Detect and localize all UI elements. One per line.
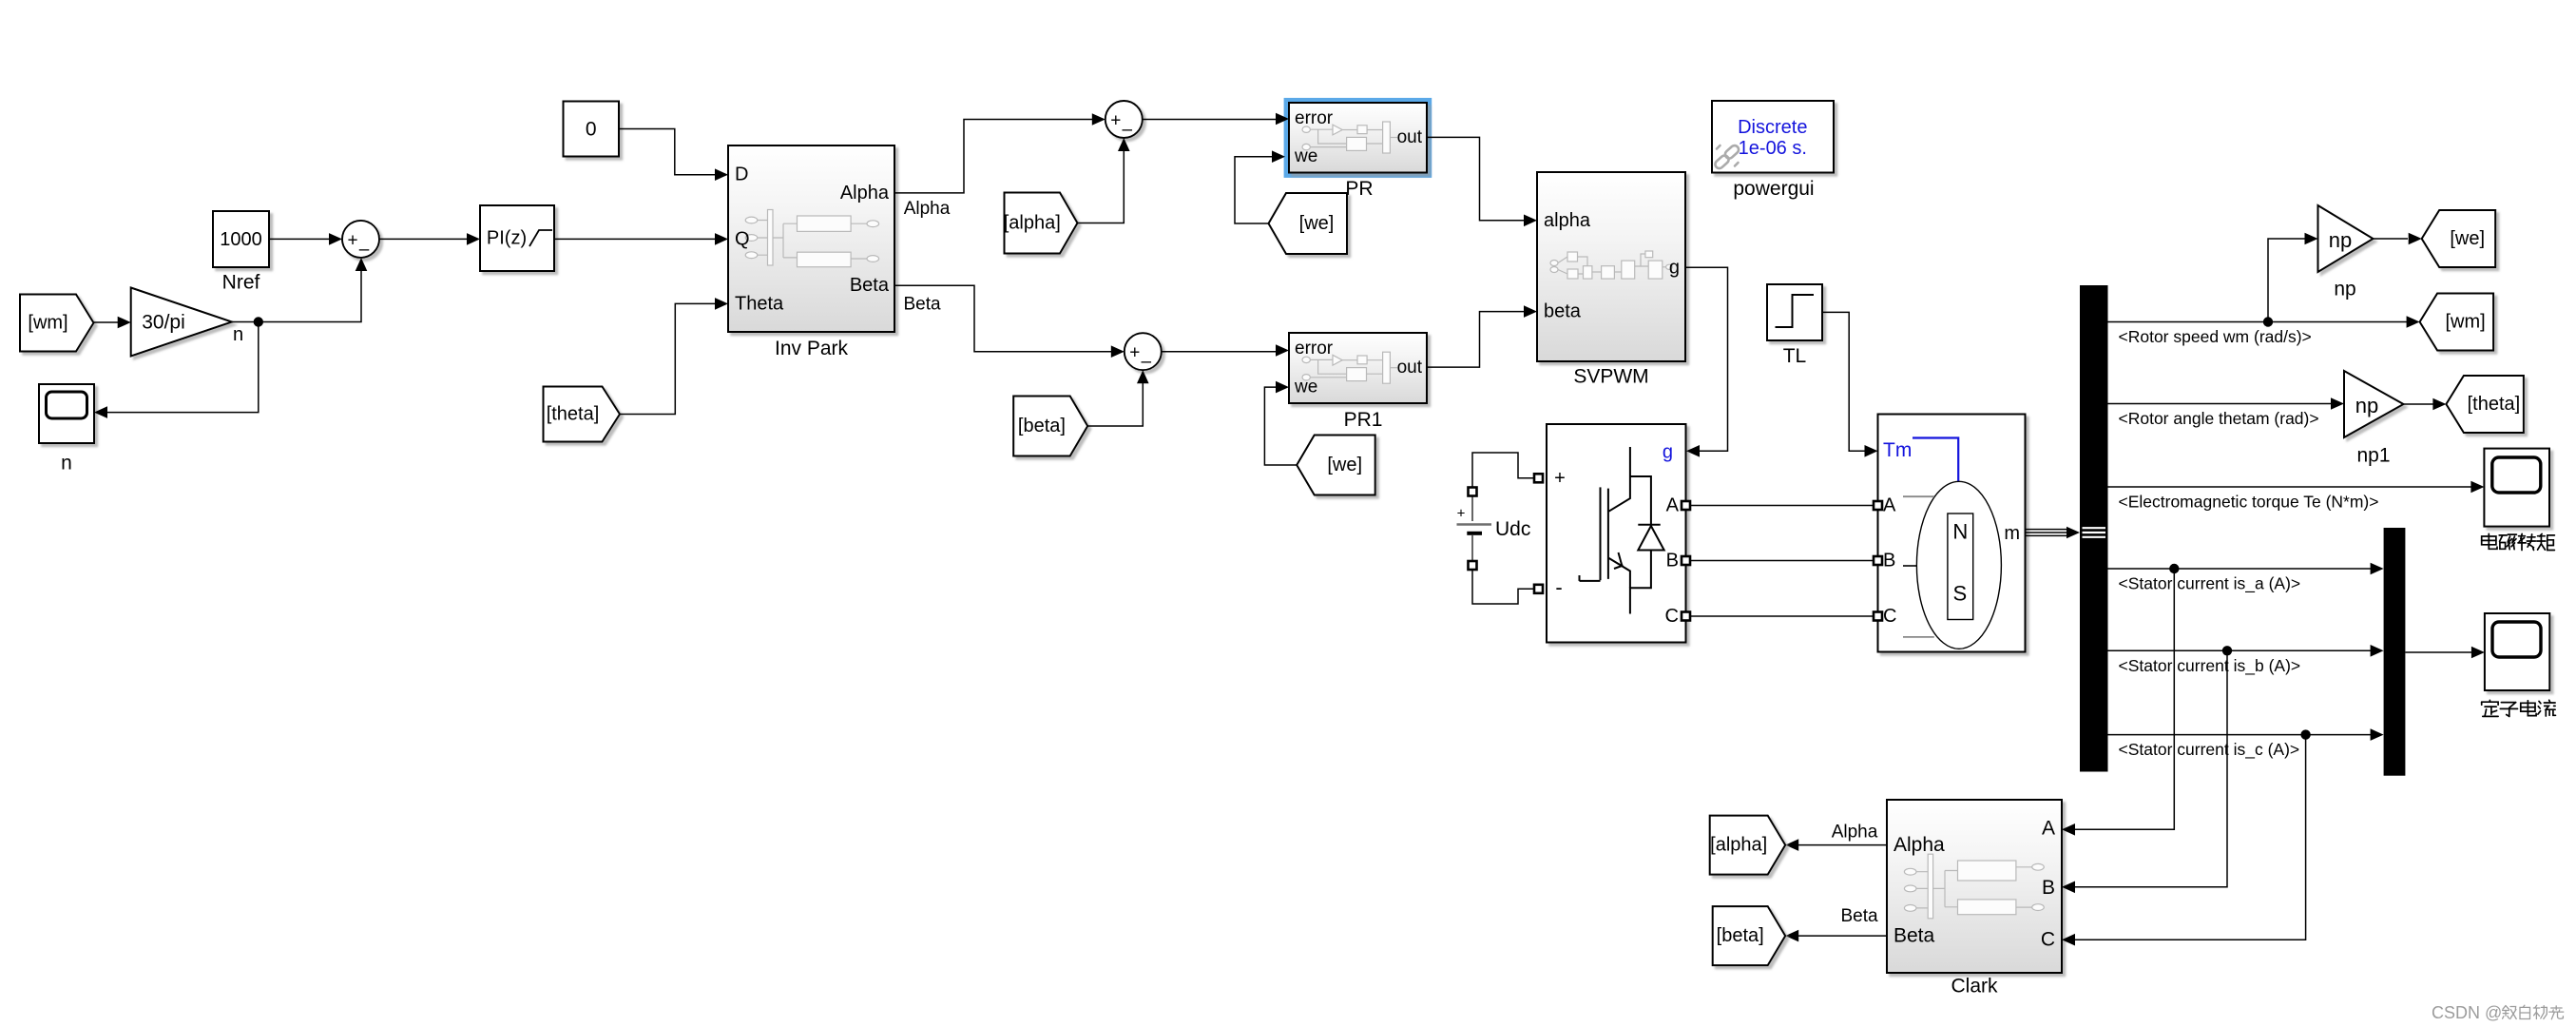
wire PI to Inv Park Q [554, 233, 728, 245]
svg-text:+: + [347, 230, 357, 250]
svg-text:g: g [1663, 442, 1673, 463]
svg-text:error: error [1295, 339, 1334, 358]
svg-text:C: C [2041, 929, 2055, 951]
svg-text:Tm: Tm [1883, 439, 1912, 461]
svg-text:<Stator current is_c (A)>: <Stator current is_c (A)> [2119, 740, 2300, 760]
wire Nref to sum S1 [269, 233, 342, 245]
svg-text:[beta]: [beta] [1018, 416, 1066, 436]
svg-text:Q: Q [735, 228, 750, 249]
wire SVPWM g to inverter g [1685, 267, 1728, 456]
from tag [theta] left [544, 387, 621, 442]
wire sum S1 to PI [379, 233, 480, 245]
bus signal m to bus selector [2026, 527, 2081, 539]
svg-text:C: C [1665, 606, 1679, 627]
inverter port squares [1534, 474, 1690, 620]
svg-text:[we]: [we] [1299, 213, 1335, 234]
wire is_b to Clark B [2062, 650, 2227, 893]
subsystem Inv Park [728, 145, 894, 332]
label dingzi dianliu (stator current) [2482, 700, 2556, 716]
watermark xubai chuyao [2503, 1005, 2564, 1019]
wire constant 0 to Inv Park D [619, 129, 728, 182]
wire [theta] to Inv Park Theta [620, 298, 728, 414]
svg-text:N: N [1952, 520, 1968, 544]
goto tag [we] right [2422, 210, 2496, 267]
gain block np1 [2344, 371, 2404, 437]
wire mux to scope [2405, 647, 2485, 659]
wire stator current is_a [2108, 563, 2384, 575]
svg-text:Alpha: Alpha [1894, 834, 1945, 856]
bus selector input stripes [2083, 528, 2106, 537]
svg-text:Alpha: Alpha [1832, 823, 1878, 843]
sum junction S3 [1125, 333, 1162, 372]
svg-text:[theta]: [theta] [547, 404, 600, 425]
from tag [alpha] mid [1004, 193, 1078, 254]
junction is_a [2169, 564, 2179, 573]
constant block Nref value 1000 [213, 211, 269, 267]
svg-text:np1: np1 [2356, 445, 2390, 467]
wire is_a to Clark A [2062, 569, 2174, 836]
svg-text:out: out [1397, 358, 1423, 378]
svg-text:<Rotor speed wm (rad/s)>: <Rotor speed wm (rad/s)> [2119, 327, 2312, 346]
wire rotor angle [2108, 397, 2345, 410]
goto tag [theta] right [2446, 376, 2524, 433]
svg-text:[we]: [we] [1327, 455, 1362, 475]
sum junction S2 [1105, 101, 1143, 140]
selection highlight of PR [1284, 98, 1432, 178]
svg-text:error: error [1295, 108, 1334, 128]
svg-text:np: np [2334, 279, 2355, 300]
motor port squares [1874, 501, 1882, 621]
svg-text:np: np [2329, 228, 2352, 252]
svg-text:+: + [1129, 343, 1140, 363]
svg-text:Beta: Beta [1840, 906, 1878, 926]
svg-text:D: D [735, 165, 748, 185]
wire is_c to Clark C [2062, 735, 2306, 946]
wire branch to gain np [2268, 233, 2318, 322]
svg-text:Beta: Beta [850, 275, 890, 296]
wire [wm] to gain [94, 317, 131, 329]
powergui block [1712, 101, 1834, 173]
wire stator current is_c [2108, 728, 2384, 741]
svg-text:[we]: [we] [2450, 228, 2485, 249]
svg-text:n: n [233, 324, 243, 345]
wire [beta] to sum S3 [1087, 370, 1148, 426]
svg-text:CSDN @: CSDN @ [2432, 1003, 2502, 1022]
svg-text:beta: beta [1544, 301, 1582, 322]
svg-text:n: n [61, 453, 72, 475]
svg-text:–: – [359, 240, 370, 260]
PMSM motor block [1878, 415, 2026, 652]
svg-text:Theta: Theta [735, 293, 784, 314]
junction node n [254, 317, 263, 326]
scope block n [39, 384, 94, 443]
scope block stator current [2485, 613, 2549, 690]
svg-text:-: - [1555, 575, 1562, 599]
svg-text:out: out [1397, 127, 1423, 147]
svg-text:–: – [1142, 352, 1152, 372]
wire gain to sum S1 via node n [232, 258, 367, 322]
svg-text:[beta]: [beta] [1717, 925, 1764, 946]
from tag [beta] mid [1013, 397, 1087, 456]
wire Clark Alpha to [alpha] [1785, 839, 1887, 851]
svg-text:<Rotor angle thetam (rad)>: <Rotor angle thetam (rad)> [2119, 409, 2319, 428]
svg-text:–: – [1123, 120, 1133, 140]
wire sum S2 to PR error [1143, 113, 1289, 126]
svg-text:Alpha: Alpha [840, 183, 890, 203]
svg-text:+: + [1110, 111, 1121, 131]
svg-text:TL: TL [1783, 345, 1807, 367]
wire [we] to PR we [1235, 150, 1285, 223]
svg-text:Inv Park: Inv Park [775, 338, 849, 359]
wire np1 to [theta] [2404, 398, 2447, 411]
junction is_b [2222, 646, 2232, 655]
sum junction S1 [342, 221, 379, 260]
step block TL [1767, 284, 1822, 340]
inverter bridge block [1547, 424, 1686, 643]
svg-text:B: B [2042, 877, 2055, 899]
svg-text:powergui: powergui [1733, 178, 1814, 200]
svg-text:Alpha: Alpha [904, 199, 951, 219]
svg-text:[wm]: [wm] [28, 313, 67, 334]
wire sum S3 to PR1 error [1162, 344, 1289, 357]
svg-text:0: 0 [586, 119, 597, 141]
from tag [we] lower (mirrored) [1297, 436, 1375, 495]
wire PR out to SVPWM alpha [1427, 137, 1537, 226]
goto tag [beta] bottom [1713, 906, 1786, 965]
mux bar [2384, 528, 2406, 776]
wire Alpha to sum S2 [894, 113, 1105, 193]
svg-text:[alpha]: [alpha] [1004, 213, 1061, 234]
svg-text:PR: PR [1345, 178, 1373, 200]
wire phase C [1690, 615, 1874, 617]
svg-text:B: B [1883, 551, 1895, 572]
wire Udc+ to inverter + [1472, 453, 1534, 488]
goto tag [alpha] bottom [1710, 816, 1786, 875]
svg-text:[alpha]: [alpha] [1710, 835, 1767, 856]
svg-text:Clark: Clark [1951, 976, 1998, 998]
svg-text:Beta: Beta [1894, 925, 1935, 947]
wire np to [we] [2374, 233, 2422, 245]
goto tag [wm] right [2420, 294, 2494, 351]
svg-text:alpha: alpha [1544, 210, 1591, 231]
svg-text:SVPWM: SVPWM [1573, 366, 1648, 388]
svg-text:1000: 1000 [220, 229, 262, 250]
wire rotor speed wm [2108, 316, 2420, 328]
DC voltage source Udc [1457, 488, 1492, 571]
svg-text:30/pi: 30/pi [142, 312, 185, 334]
wire Beta to sum S3 [894, 285, 1125, 358]
svg-text:A: A [1666, 495, 1680, 516]
svg-text:Nref: Nref [222, 272, 260, 294]
svg-text:+: + [1554, 468, 1566, 489]
scope block torque [2484, 449, 2549, 527]
svg-text:C: C [1883, 606, 1896, 627]
svg-text:we: we [1294, 146, 1317, 166]
svg-text:[theta]: [theta] [2468, 394, 2521, 415]
from tag [we] upper (mirrored) [1269, 193, 1348, 254]
svg-text:+: + [1457, 506, 1466, 522]
wire [alpha] to sum S2 [1078, 138, 1130, 223]
subsystem SVPWM [1537, 172, 1685, 361]
svg-text:g: g [1669, 257, 1680, 278]
wire Clark Beta to [beta] [1785, 930, 1887, 942]
junction wm [2263, 317, 2273, 326]
svg-text:1e-06 s.: 1e-06 s. [1739, 138, 1807, 159]
gain block 30/pi [131, 288, 232, 357]
svg-text:A: A [2042, 817, 2055, 839]
wire electromagnetic torque [2108, 481, 2485, 494]
svg-text:<Stator current is_b (A)>: <Stator current is_b (A)> [2119, 656, 2301, 676]
subsystem PR controller [1289, 103, 1427, 173]
svg-text:Beta: Beta [903, 294, 941, 314]
wire phase A [1690, 505, 1874, 507]
wire node n to scope n [94, 322, 259, 418]
gain block np [2318, 205, 2374, 272]
svg-text:Discrete: Discrete [1738, 117, 1807, 138]
svg-text:we: we [1294, 378, 1317, 397]
svg-text:[wm]: [wm] [2445, 312, 2485, 333]
wire [we] to PR1 we [1264, 381, 1297, 465]
wire stator current is_b [2108, 645, 2384, 657]
svg-text:Udc: Udc [1495, 518, 1530, 540]
wire Udc- to inverter - [1472, 570, 1534, 604]
wire phase B [1690, 560, 1874, 562]
svg-text:S: S [1952, 582, 1967, 606]
constant block value 0 [564, 102, 620, 157]
label dianci zhuanju (electromagnetic torque) [2482, 533, 2555, 550]
svg-text:m: m [2004, 523, 2020, 544]
svg-text:PI(z): PI(z) [487, 228, 527, 249]
wire PR1 out to SVPWM beta [1427, 305, 1537, 367]
subsystem PR1 controller [1289, 333, 1427, 403]
from tag [wm] [20, 295, 94, 352]
wire TL to motor Tm [1822, 312, 1878, 456]
junction is_c [2300, 729, 2310, 739]
svg-text:<Electromagnetic torque Te (N*: <Electromagnetic torque Te (N*m)> [2119, 493, 2379, 512]
svg-text:PR1: PR1 [1344, 409, 1383, 431]
svg-text:B: B [1666, 551, 1679, 572]
PI controller block PI(z) [480, 205, 554, 271]
subsystem Clark [1887, 800, 2062, 973]
svg-text:<Stator current is_a (A)>: <Stator current is_a (A)> [2119, 574, 2301, 594]
bus selector bar [2080, 285, 2108, 772]
svg-text:np: np [2355, 394, 2378, 417]
svg-text:A: A [1883, 495, 1896, 516]
